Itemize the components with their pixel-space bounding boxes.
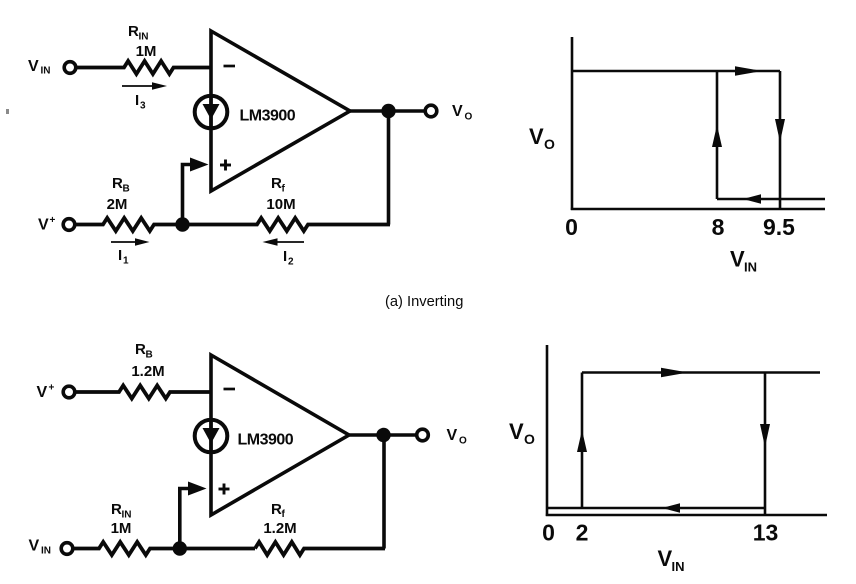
svg-text:R: R	[111, 501, 122, 518]
svg-text:O: O	[459, 435, 467, 446]
svg-text:R: R	[112, 175, 123, 192]
svg-text:O: O	[465, 111, 473, 122]
svg-text:I: I	[118, 247, 122, 264]
graph B: rightward arrowhead on high line	[661, 368, 688, 377]
svg-text:B: B	[146, 350, 153, 361]
feedback wire vertical (circuit A)	[387, 111, 391, 225]
svg-text:V: V	[28, 58, 39, 75]
svg-text:10M: 10M	[266, 196, 295, 213]
resistor R2 R_B 2M (circuit A) with bottom rail wire	[75, 175, 257, 231]
svg-text:IN: IN	[672, 559, 685, 574]
graph A: x-axis label VIN	[730, 247, 757, 275]
current source symbol inside op-amp (circuit B)	[195, 420, 228, 453]
resistor R3 R_f 10M (circuit A) with wire to feedback	[257, 175, 391, 231]
svg-text:9.5: 9.5	[763, 214, 795, 240]
op-amp U2 LM3900 triangle (circuit B)	[211, 355, 349, 515]
svg-text:V: V	[509, 419, 524, 444]
svg-text:B: B	[123, 184, 130, 195]
output node dot (circuit A)	[381, 104, 395, 118]
minus input pin label (circuit B)	[224, 388, 236, 391]
current arrow I1	[111, 238, 150, 266]
svg-text:O: O	[524, 431, 535, 447]
graph A: VIN axis (horizontal)	[571, 208, 825, 211]
svg-text:+: +	[50, 215, 56, 226]
graph B: VIN axis (horizontal)	[546, 514, 827, 517]
svg-text:I: I	[283, 248, 287, 265]
plus input pin label (circuit A)	[220, 160, 231, 171]
graph A: falling transition line at 9.5	[779, 71, 782, 208]
graph B: x-axis label VIN	[658, 546, 685, 574]
terminal VO (output, circuit B)	[417, 427, 467, 446]
graph B: falling transition line at 13	[764, 373, 767, 516]
terminal VIN (input, circuit B)	[29, 538, 73, 557]
svg-text:1.2M: 1.2M	[263, 520, 296, 537]
graph B: y-axis label VO	[509, 419, 535, 447]
terminal V+ (bias, circuit A)	[38, 215, 75, 234]
graph A: low output level line	[717, 198, 825, 201]
output node dot (circuit B)	[376, 428, 390, 442]
svg-text:I: I	[135, 92, 139, 109]
svg-text:V: V	[529, 124, 544, 149]
svg-text:V: V	[37, 384, 48, 401]
feedback wire vertical (circuit B)	[382, 435, 386, 549]
svg-text:V: V	[447, 427, 458, 444]
terminal VO (output, circuit A)	[425, 103, 472, 122]
minus input pin label (circuit A)	[224, 65, 236, 68]
svg-text:2: 2	[288, 257, 294, 268]
graph B: rising transition line at 2	[581, 373, 584, 509]
svg-text:R: R	[271, 501, 282, 518]
svg-text:V: V	[730, 247, 745, 272]
svg-text:O: O	[544, 136, 555, 152]
graph A: upward arrowhead on 8 line	[712, 125, 722, 147]
resistor R6 R_f 1.2M (circuit B) with wire to feedback	[255, 501, 385, 555]
terminal VIN (input, circuit A)	[28, 58, 76, 77]
svg-text:LM3900: LM3900	[238, 432, 294, 449]
graph B: upward arrowhead on 2 line	[577, 430, 587, 452]
resistor R1 R_IN 1M (circuit A) with wire to op-amp minus input	[76, 23, 211, 74]
current arrow I3	[122, 82, 167, 111]
resistor R5 R_IN 1M (circuit B) with bottom rail wire	[73, 501, 256, 555]
terminal V+ (bias, circuit B)	[37, 383, 75, 402]
output wire (circuit A)	[350, 109, 425, 113]
svg-text:V: V	[38, 217, 49, 234]
wire from node to plus input with arrowhead (circuit A)	[183, 158, 209, 225]
graph A: high output level line	[572, 70, 780, 73]
graph A: rising transition line at 8	[716, 70, 719, 199]
svg-text:IN: IN	[139, 32, 149, 43]
svg-text:LM3900: LM3900	[240, 108, 296, 125]
svg-text:0: 0	[565, 214, 578, 240]
svg-text:IN: IN	[122, 510, 132, 521]
wire from node to plus input with arrowhead (circuit B)	[180, 482, 207, 549]
svg-text:IN: IN	[41, 546, 51, 557]
node junction dot (circuit A, bias node)	[175, 217, 189, 231]
svg-text:1: 1	[123, 256, 129, 267]
svg-text:13: 13	[753, 520, 779, 546]
svg-text:R: R	[135, 341, 146, 358]
op-amp U1 LM3900 triangle (circuit A)	[211, 31, 350, 191]
graph A: V axis (vertical)	[571, 37, 574, 210]
graph B: downward arrowhead on 13 line	[760, 424, 770, 447]
svg-text:V: V	[658, 546, 673, 571]
svg-text:V: V	[452, 103, 463, 120]
graph B: low output level line	[547, 507, 765, 510]
svg-text:1M: 1M	[111, 520, 132, 537]
plus input pin label (circuit B)	[219, 484, 230, 495]
resistor R4 R_B 1.2M (circuit B) with wire to minus input	[75, 341, 212, 399]
graph A: leftward arrowhead on low line	[743, 194, 761, 204]
output wire (circuit B)	[349, 433, 417, 437]
graph B: high output level line	[582, 371, 820, 374]
svg-text:8: 8	[712, 214, 725, 240]
graph A: rightward arrowhead on high line	[735, 66, 762, 75]
current source symbol inside op-amp (circuit A)	[195, 96, 228, 129]
graph B: V axis (vertical)	[546, 345, 549, 516]
svg-text:V: V	[29, 538, 40, 555]
svg-text:R: R	[271, 175, 282, 192]
graph A: downward arrowhead on 9.5 line	[775, 119, 785, 142]
svg-text:3: 3	[140, 101, 146, 112]
svg-text:0: 0	[542, 520, 555, 546]
svg-text:(a) Inverting: (a) Inverting	[385, 294, 463, 310]
svg-text:2M: 2M	[107, 196, 128, 213]
graph A: y-axis label VO	[529, 124, 555, 152]
svg-text:1.2M: 1.2M	[131, 363, 164, 380]
node junction dot (circuit B, input node)	[173, 541, 187, 555]
svg-text:1M: 1M	[136, 43, 157, 60]
graph B: leftward arrowhead on low line	[662, 503, 680, 513]
svg-text:2: 2	[576, 520, 589, 546]
svg-text:R: R	[128, 23, 139, 40]
svg-text:+: +	[49, 383, 55, 394]
svg-text:IN: IN	[41, 66, 51, 77]
svg-text:IN: IN	[744, 260, 757, 275]
current arrow I2	[263, 238, 305, 267]
